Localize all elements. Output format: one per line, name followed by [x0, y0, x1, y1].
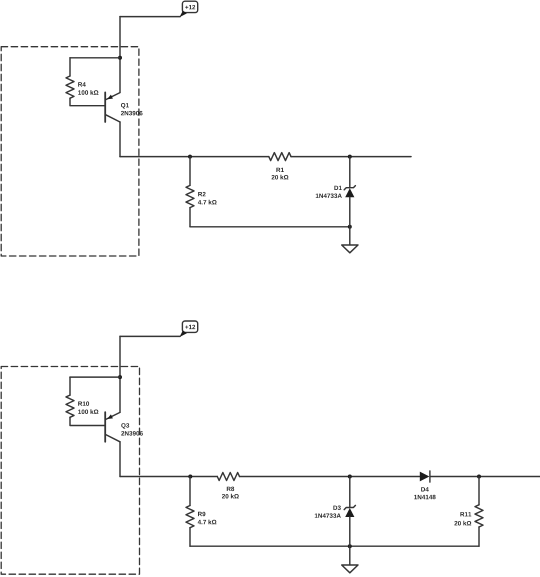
- resistor R11 zigzag: [475, 505, 483, 527]
- label R4 value: [78, 90, 98, 95]
- node junction main rail / R11: [477, 475, 481, 479]
- node junction main rail / R9: [188, 475, 192, 479]
- node junction main rail / D1: [348, 155, 352, 159]
- wire main rail middle segment (bottom): [240, 476, 420, 478]
- label D3: [333, 506, 340, 511]
- node junction main rail / D3: [348, 475, 352, 479]
- wire main rail right segment to edge (bottom): [430, 476, 540, 478]
- node junction emitter rail / R4 (top): [118, 56, 122, 60]
- wire R2 bottom lead: [189, 208, 191, 227]
- label R11 value: [454, 521, 471, 526]
- wire R10 top lead: [69, 377, 71, 395]
- wire Q1 collector to main rail: [119, 122, 121, 157]
- label R1: [276, 168, 284, 172]
- wire D1 anode lead: [349, 197, 351, 227]
- wire main rail left segment (bottom): [120, 476, 217, 478]
- label D1 part number: [316, 194, 342, 199]
- transistor Q3 2N3906 (PNP): [105, 412, 120, 442]
- wire R2 top lead: [189, 157, 191, 186]
- label Q1 part number: [121, 111, 143, 116]
- ground symbol (top): [342, 227, 358, 253]
- wire D1 cathode lead: [349, 157, 351, 188]
- resistor R10 zigzag: [66, 395, 74, 417]
- diode D4 1N4148: [420, 471, 430, 482]
- label R8: [227, 487, 234, 492]
- wire main rail right segment (top): [291, 156, 411, 158]
- label +12 (top): [185, 5, 195, 9]
- label R1 value: [272, 175, 289, 180]
- wire R10 bottom lead to Q3 base: [70, 417, 104, 425]
- wire from +12 flag to vertical drop (top): [120, 16, 180, 18]
- wire R4 bottom lead to Q1 base: [70, 98, 104, 106]
- wire Q3 collector to main rail: [119, 442, 121, 477]
- zener diode D1 1N4733A: [344, 186, 355, 198]
- resistor R9 zigzag: [186, 506, 194, 528]
- wire bottom return rail (bottom): [190, 545, 479, 547]
- label D4: [421, 487, 429, 491]
- wire D3 cathode lead: [349, 477, 351, 508]
- wire junction to R4 branch (top): [70, 57, 120, 59]
- wire R11 bottom lead: [478, 527, 480, 546]
- label D4 part number: [414, 495, 435, 500]
- label Q3 part number: [121, 431, 143, 436]
- label R2 value: [198, 200, 217, 205]
- label R10: [78, 401, 89, 406]
- label D1: [334, 186, 341, 190]
- label R2: [198, 192, 205, 196]
- resistor R1 zigzag: [269, 153, 291, 161]
- wire vertical from +12 down to Q3 emitter: [119, 336, 121, 412]
- +12 supply flag (bottom): [179, 321, 197, 337]
- wire bottom return rail (top): [190, 226, 350, 228]
- ground symbol (bottom): [342, 546, 358, 573]
- label Q1: [121, 103, 129, 109]
- node junction bottom rail / D3 anode: [348, 544, 352, 548]
- wire main rail left segment (top): [120, 156, 269, 158]
- label R8 value: [222, 494, 239, 499]
- wire from +12 flag to vertical drop (bottom): [120, 335, 180, 337]
- wire R9 bottom lead: [189, 528, 191, 547]
- resistor R8 zigzag: [217, 473, 239, 481]
- wire D3 anode lead: [349, 517, 351, 546]
- label R11: [460, 512, 471, 516]
- wire R4 top lead: [69, 58, 71, 76]
- wire R9 top lead: [189, 477, 191, 506]
- +12 supply flag (top): [179, 1, 197, 17]
- resistor R4 zigzag: [66, 76, 74, 98]
- node junction emitter rail / R10 (bottom): [118, 375, 122, 379]
- transistor Q1 2N3906 (PNP): [105, 92, 120, 122]
- label D3 part number: [315, 513, 341, 518]
- label +12 (bottom): [185, 325, 195, 329]
- wire vertical from +12 down to Q1 emitter: [119, 17, 121, 93]
- label R9: [198, 512, 205, 517]
- label Q3: [121, 423, 129, 429]
- dashed enclosure box (top subcircuit): [1, 47, 139, 256]
- label R10 value: [78, 409, 98, 414]
- resistor R2 zigzag: [186, 185, 194, 207]
- wire R11 top lead: [478, 477, 480, 505]
- node junction main rail / R2: [188, 155, 192, 159]
- dashed enclosure box (bottom subcircuit): [1, 367, 139, 575]
- label R9 value: [198, 520, 217, 525]
- zener diode D3 1N4733A: [344, 505, 355, 517]
- label R4: [78, 82, 86, 86]
- wire junction to R10 branch (bottom): [70, 376, 120, 378]
- node junction bottom rail / D1 anode: [348, 225, 352, 229]
